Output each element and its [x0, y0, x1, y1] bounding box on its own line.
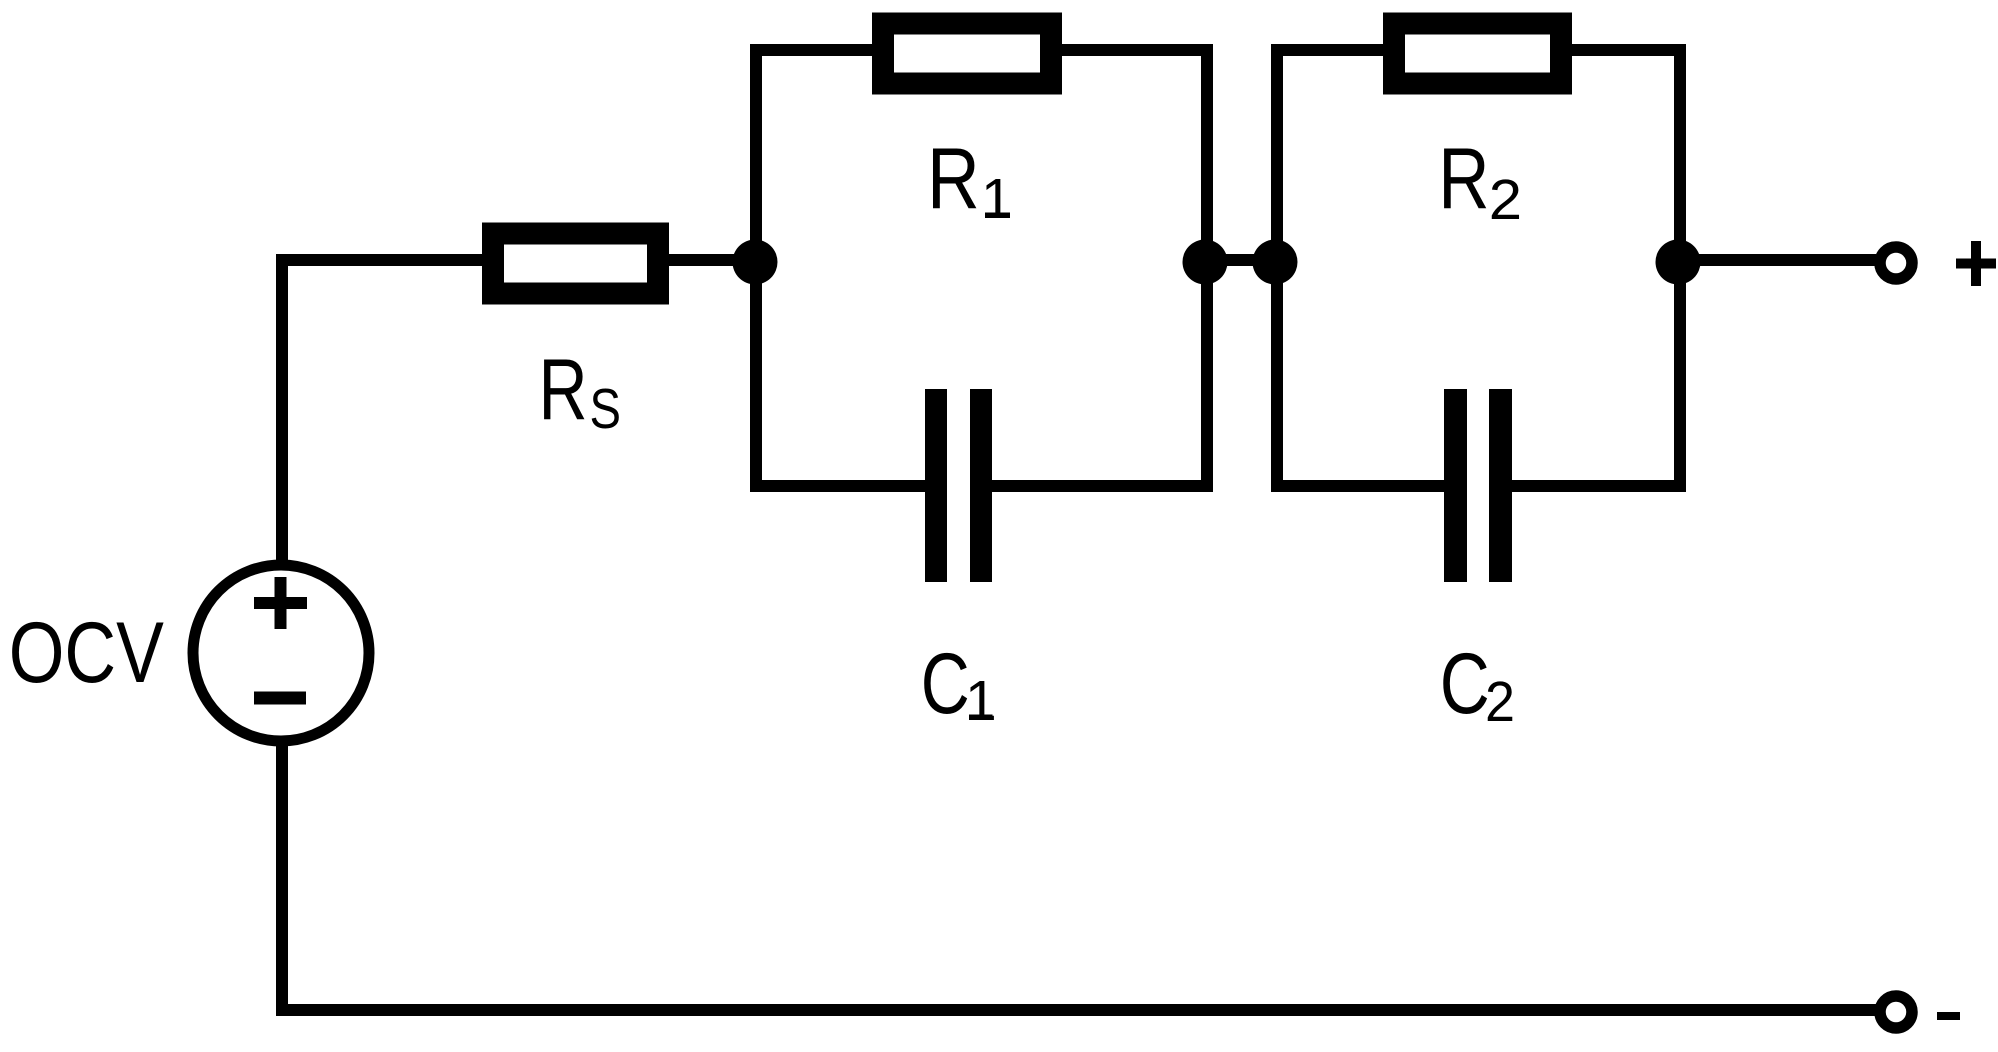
label + at positive terminal [1956, 241, 1996, 286]
node A junction dot [733, 240, 778, 285]
wire RC1 left branch (top-left, left vertical, bottom-left) [756, 50, 925, 486]
label - at negative terminal [1937, 1012, 1960, 1020]
wire RC1 right branch (top-right, right vertical, bottom-right) [992, 50, 1207, 486]
svg-text:R: R [927, 131, 980, 227]
svg-text:C: C [1440, 636, 1490, 732]
resistor R1 [883, 24, 1051, 84]
label C2 [1440, 636, 1515, 734]
wire node D to positive terminal [1680, 254, 1876, 266]
wire RS to node A [669, 254, 756, 266]
voltage source OCV [193, 565, 369, 741]
resistor RS [493, 234, 658, 294]
svg-text:2: 2 [1489, 168, 1522, 232]
wire node B to node C [1205, 254, 1277, 266]
label R2 [1438, 131, 1522, 232]
svg-text:1: 1 [965, 669, 997, 733]
label RS [539, 342, 622, 441]
label C1 [921, 636, 997, 733]
svg-text:S: S [590, 377, 622, 441]
negative terminal ring [1880, 996, 1912, 1028]
positive terminal ring [1880, 247, 1912, 279]
svg-text:R: R [1438, 131, 1489, 227]
plus sign inside OCV [254, 577, 307, 629]
node D junction dot [1656, 240, 1701, 285]
node B junction dot [1183, 240, 1228, 285]
wire from OCV top to resistor RS [282, 260, 483, 566]
svg-text:1: 1 [981, 167, 1013, 231]
wire OCV bottom to negative terminal [282, 746, 1876, 1010]
svg-text:2: 2 [1485, 670, 1515, 734]
label R1 [927, 131, 1013, 231]
capacitor C2 [1444, 389, 1512, 582]
capacitor C1 [925, 389, 992, 582]
svg-text:OCV: OCV [9, 605, 164, 701]
svg-text:R: R [539, 342, 588, 438]
node C junction dot [1253, 240, 1298, 285]
wire RC2 right branch (top-right, right vertical, bottom-right) [1512, 50, 1680, 486]
svg-text:C: C [921, 636, 970, 732]
minus sign inside OCV [254, 692, 306, 705]
wire RC2 left branch (top-left, left vertical, bottom-left) [1277, 50, 1444, 486]
resistor R2 [1394, 24, 1561, 84]
